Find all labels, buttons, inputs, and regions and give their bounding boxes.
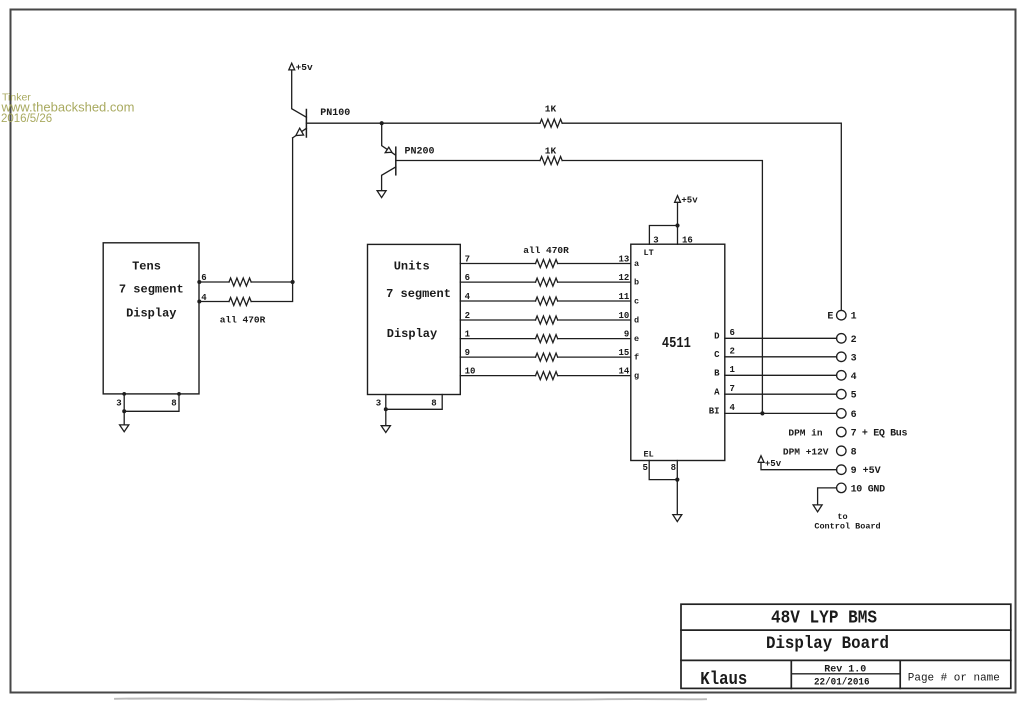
svg-text:1: 1 (465, 330, 471, 340)
transistor PN200 (382, 146, 435, 190)
svg-text:PN200: PN200 (405, 146, 435, 157)
IC 4511 (U1) (631, 244, 725, 460)
svg-text:15: 15 (618, 348, 629, 358)
svg-text:Klaus: Klaus (700, 670, 747, 690)
node: Tens pin 3 stub (122, 392, 126, 396)
watermark text (1, 92, 135, 126)
svg-text:+5v: +5v (765, 459, 782, 469)
svg-text:3: 3 (376, 399, 381, 409)
node: Tens pin 6 (197, 280, 201, 284)
svg-text:7: 7 (465, 255, 470, 265)
title text: author (700, 670, 747, 690)
svg-text:BI: BI (709, 407, 720, 417)
resistor 470R (segment a) (536, 260, 558, 268)
node: Tens pin 4 (197, 300, 201, 304)
wire: 4511 BI to connector 6 (709, 403, 837, 417)
svg-text:5: 5 (642, 463, 647, 473)
wire: Units pin 10 to 4511 pin 14 (segment g) (460, 367, 631, 377)
connector pin 2 (837, 334, 857, 346)
value label all 470R (Units) (523, 245, 569, 256)
connector pin 4 (837, 371, 857, 383)
svg-text:c: c (634, 297, 639, 307)
svg-text:1K: 1K (545, 103, 557, 114)
ground (4511) (673, 515, 682, 522)
svg-text:B: B (714, 369, 720, 379)
svg-text:2016/5/26: 2016/5/26 (1, 113, 52, 125)
svg-text:7 segment: 7 segment (386, 287, 451, 301)
node: Tens ground junction (122, 409, 126, 413)
connector pin 10 (GND) (837, 483, 886, 495)
svg-text:13: 13 (618, 255, 629, 265)
svg-text:+5v: +5v (681, 196, 698, 206)
resistor 1K (upper) (540, 103, 562, 127)
svg-text:C: C (714, 350, 720, 360)
Units display box U3 (368, 244, 461, 394)
resistor 470R (segment d) (536, 316, 558, 324)
scan artifact line (bottom) (115, 698, 706, 699)
power symbol +5v (above 4511) (675, 196, 699, 206)
svg-text:8: 8 (431, 399, 436, 409)
note: to Control Board (814, 512, 880, 531)
svg-text:2: 2 (465, 311, 470, 321)
pin 8 label (Tens bottom) (171, 398, 176, 408)
svg-text:10 GND: 10 GND (851, 484, 886, 495)
svg-text:7 segment: 7 segment (119, 282, 184, 296)
title text: revision (824, 664, 866, 675)
wire: 4511 B output to connector 4 (714, 365, 837, 379)
connector pin 7 (+ EQ Bus) (788, 427, 907, 439)
svg-text:8: 8 (851, 447, 857, 458)
node: junction PN100 base / PN200 emitter (380, 121, 384, 125)
wire: Units pin 6 to 4511 pin 12 (segment b) (460, 273, 631, 283)
svg-text:PN100: PN100 (320, 108, 350, 119)
svg-text:6: 6 (851, 410, 857, 421)
svg-text:1: 1 (851, 312, 857, 323)
wire: Tens pin 6 to PN100 emitter (with 470R) (199, 281, 293, 283)
svg-text:2: 2 (730, 347, 735, 357)
svg-text:Rev 1.0: Rev 1.0 (824, 664, 866, 675)
svg-text:d: d (634, 316, 639, 326)
pin 5 label (4511 bottom) (642, 463, 647, 473)
wire: 4511 D output to connector 2 (714, 328, 837, 342)
connector pin 3 (837, 352, 857, 364)
svg-text:A: A (714, 388, 720, 398)
wire: +5v to 4511 pins 3 and 16 (649, 203, 677, 245)
pin 4 label (Tens) (201, 293, 207, 303)
pin 3 label (4511 top) (653, 236, 658, 246)
ground (connector pin 10) (813, 505, 822, 512)
pin 6 label (Tens) (201, 273, 206, 283)
svg-text:3: 3 (851, 353, 857, 364)
wire: +5v to connector pin 9 (761, 462, 837, 469)
ground (Tens display) (120, 425, 129, 432)
svg-text:7 + EQ Bus: 7 + EQ Bus (851, 429, 908, 440)
node: junction above pin 16 (675, 223, 679, 227)
resistor 470R (segment f) (536, 353, 558, 361)
title text: project (771, 608, 877, 628)
ground (Units display) (381, 426, 390, 433)
resistor 470R (segment e) (536, 335, 558, 343)
svg-text:3: 3 (116, 398, 121, 408)
svg-text:E: E (827, 312, 833, 323)
wire: Tens pin 4 joins emitter net (199, 282, 293, 302)
wire: Units pin 2 to 4511 pin 10 (segment d) (460, 311, 631, 321)
node: emitter junction at x293 (291, 280, 295, 284)
svg-text:1: 1 (730, 365, 736, 375)
svg-text:16: 16 (682, 236, 693, 246)
pin 8 label (Units bottom) (431, 399, 436, 409)
svg-text:all 470R: all 470R (220, 314, 266, 325)
wire: 4511 A output to connector 5 (714, 384, 837, 398)
svg-text:11: 11 (618, 292, 629, 302)
wire: junction down to PN200 emitter (382, 123, 396, 155)
resistor 470R (segment c) (536, 297, 558, 305)
ground (PN200 collector) (377, 191, 386, 198)
svg-text:5: 5 (851, 391, 857, 402)
svg-text:10: 10 (618, 311, 629, 321)
svg-text:Display: Display (126, 306, 176, 320)
title text: page (908, 672, 1000, 684)
svg-text:DPM +12V: DPM +12V (783, 446, 829, 457)
resistor 470R (segment b) (536, 278, 558, 286)
node: Units ground junction (384, 407, 388, 411)
svg-text:Tens: Tens (132, 259, 161, 273)
svg-text:Display: Display (387, 327, 437, 341)
svg-text:1K: 1K (545, 146, 557, 157)
connector pin 1 (E) (827, 310, 856, 322)
title text: sheet name (766, 634, 889, 654)
resistor 1K (lower) (540, 146, 562, 165)
svg-text:4: 4 (730, 403, 736, 413)
svg-text:Control Board: Control Board (814, 521, 880, 531)
svg-text:8: 8 (671, 463, 676, 473)
svg-text:4: 4 (465, 292, 471, 302)
svg-text:Page # or name: Page # or name (908, 672, 1000, 684)
svg-text:f: f (634, 353, 639, 363)
wire: Units pins 3,8 to ground (386, 395, 442, 426)
connector pin 6 (837, 409, 857, 421)
svg-text:48V LYP BMS: 48V LYP BMS (771, 608, 877, 628)
svg-text:7: 7 (730, 384, 735, 394)
node: BI net junction (760, 411, 764, 415)
title text: date (814, 677, 870, 689)
node: Tens pin 8 stub (177, 392, 181, 396)
4511 input pin letters a-g (634, 259, 639, 381)
connector pin 8 (DPM +12V) (783, 446, 857, 458)
svg-text:Units: Units (394, 259, 430, 273)
pin 8 label (4511 bottom) (671, 463, 676, 473)
title block (681, 604, 1011, 688)
pin 3 label (Units bottom) (376, 399, 381, 409)
svg-text:g: g (634, 371, 639, 381)
svg-text:10: 10 (465, 367, 476, 377)
svg-text:6: 6 (465, 273, 470, 283)
resistor 470R (segment g) (536, 372, 558, 380)
pin 3 label (Tens bottom) (116, 398, 121, 408)
wire: PN200 base to BI net (with 1K) (396, 161, 763, 414)
svg-text:b: b (634, 278, 639, 288)
svg-text:DPM in: DPM in (788, 428, 823, 439)
power symbol +5v (connector pin 9) (758, 456, 782, 469)
wire: 4511 C output to connector 3 (714, 347, 837, 361)
value label all 470R (Tens) (220, 314, 266, 325)
node: junction below pin 8 (675, 478, 679, 482)
pin 16 label (4511 top) (682, 236, 693, 246)
svg-text:22/01/2016: 22/01/2016 (814, 677, 870, 689)
svg-text:EL: EL (644, 450, 654, 460)
Tens display box U2 (103, 243, 199, 394)
svg-text:9: 9 (465, 348, 470, 358)
svg-text:+5v: +5v (296, 62, 313, 73)
wire: PN100 emitter down to Tens resistors (292, 138, 294, 282)
connector pin 5 (837, 389, 857, 401)
svg-text:all 470R: all 470R (523, 245, 569, 256)
svg-text:2: 2 (851, 335, 857, 346)
transistor PN100 (293, 108, 351, 138)
svg-text:12: 12 (618, 273, 629, 283)
svg-text:a: a (634, 259, 639, 269)
wire: Tens pins 3,8 to ground (124, 394, 179, 425)
resistor 470R (Tens pin 6) (229, 278, 251, 286)
wire: connector pin 10 to ground (818, 488, 837, 505)
svg-text:14: 14 (618, 367, 629, 377)
wire: 4511 pins 5,8 to ground (649, 461, 677, 515)
svg-text:3: 3 (653, 236, 658, 246)
wire: PN100 base to connector pin 1 (with 1K) (306, 123, 841, 310)
svg-text:LT: LT (644, 248, 654, 258)
wire: Units pin 4 to 4511 pin 11 (segment c) (460, 292, 631, 302)
wire: Units pin 1 to 4511 pin 9 (segment e) (460, 330, 631, 340)
power symbol +5v (top, collector of PN100) (289, 62, 313, 73)
resistor 470R (Tens pin 4) (229, 298, 251, 306)
svg-text:6: 6 (730, 328, 735, 338)
connector pin 9 (+5V) (837, 465, 881, 477)
wire: +5v to PN100 collector (292, 70, 307, 117)
svg-text:9: 9 (624, 330, 629, 340)
svg-text:9 +5V: 9 +5V (851, 466, 881, 477)
wire: Units pin 9 to 4511 pin 15 (segment f) (460, 348, 631, 358)
svg-text:8: 8 (171, 398, 176, 408)
wire: Units pin 7 to 4511 pin 13 (segment a) (460, 255, 631, 265)
svg-text:D: D (714, 332, 720, 342)
svg-text:e: e (634, 334, 639, 344)
svg-text:4511: 4511 (662, 335, 691, 352)
svg-text:Display Board: Display Board (766, 634, 889, 654)
svg-text:4: 4 (851, 372, 857, 383)
